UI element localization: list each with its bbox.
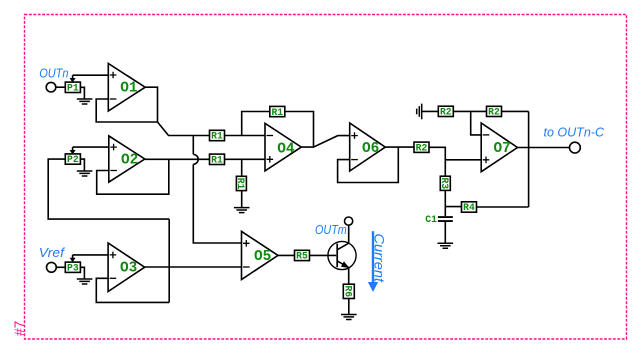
svg-text:OUTn: OUTn [39, 67, 68, 81]
svg-text:R5: R5 [296, 251, 308, 262]
svg-text:R1: R1 [271, 107, 283, 118]
svg-text:P1: P1 [67, 82, 79, 93]
svg-text:R2: R2 [440, 107, 452, 118]
svg-text:R1: R1 [235, 178, 246, 190]
svg-text:#7: #7 [12, 321, 27, 336]
svg-text:R1: R1 [211, 155, 223, 166]
svg-text:R2: R2 [416, 143, 428, 154]
svg-text:to OUTn-C: to OUTn-C [544, 126, 605, 140]
svg-text:O6: O6 [362, 141, 379, 157]
svg-text:O7: O7 [494, 141, 511, 157]
svg-text:O2: O2 [121, 152, 138, 168]
svg-text:C1: C1 [425, 214, 437, 225]
svg-text:P2: P2 [67, 154, 79, 165]
svg-text:R4: R4 [463, 202, 475, 213]
svg-text:O5: O5 [254, 249, 271, 265]
svg-text:O4: O4 [277, 141, 295, 157]
svg-text:Vref: Vref [39, 246, 66, 260]
svg-text:R2: R2 [488, 107, 500, 118]
svg-text:R6: R6 [343, 285, 354, 297]
svg-text:P3: P3 [67, 262, 79, 273]
svg-text:O1: O1 [120, 81, 138, 97]
svg-text:OUTm: OUTm [315, 223, 347, 237]
svg-text:R3: R3 [439, 177, 450, 189]
svg-text:O3: O3 [120, 261, 137, 277]
svg-text:Current: Current [372, 234, 387, 284]
svg-text:R1: R1 [211, 131, 223, 142]
